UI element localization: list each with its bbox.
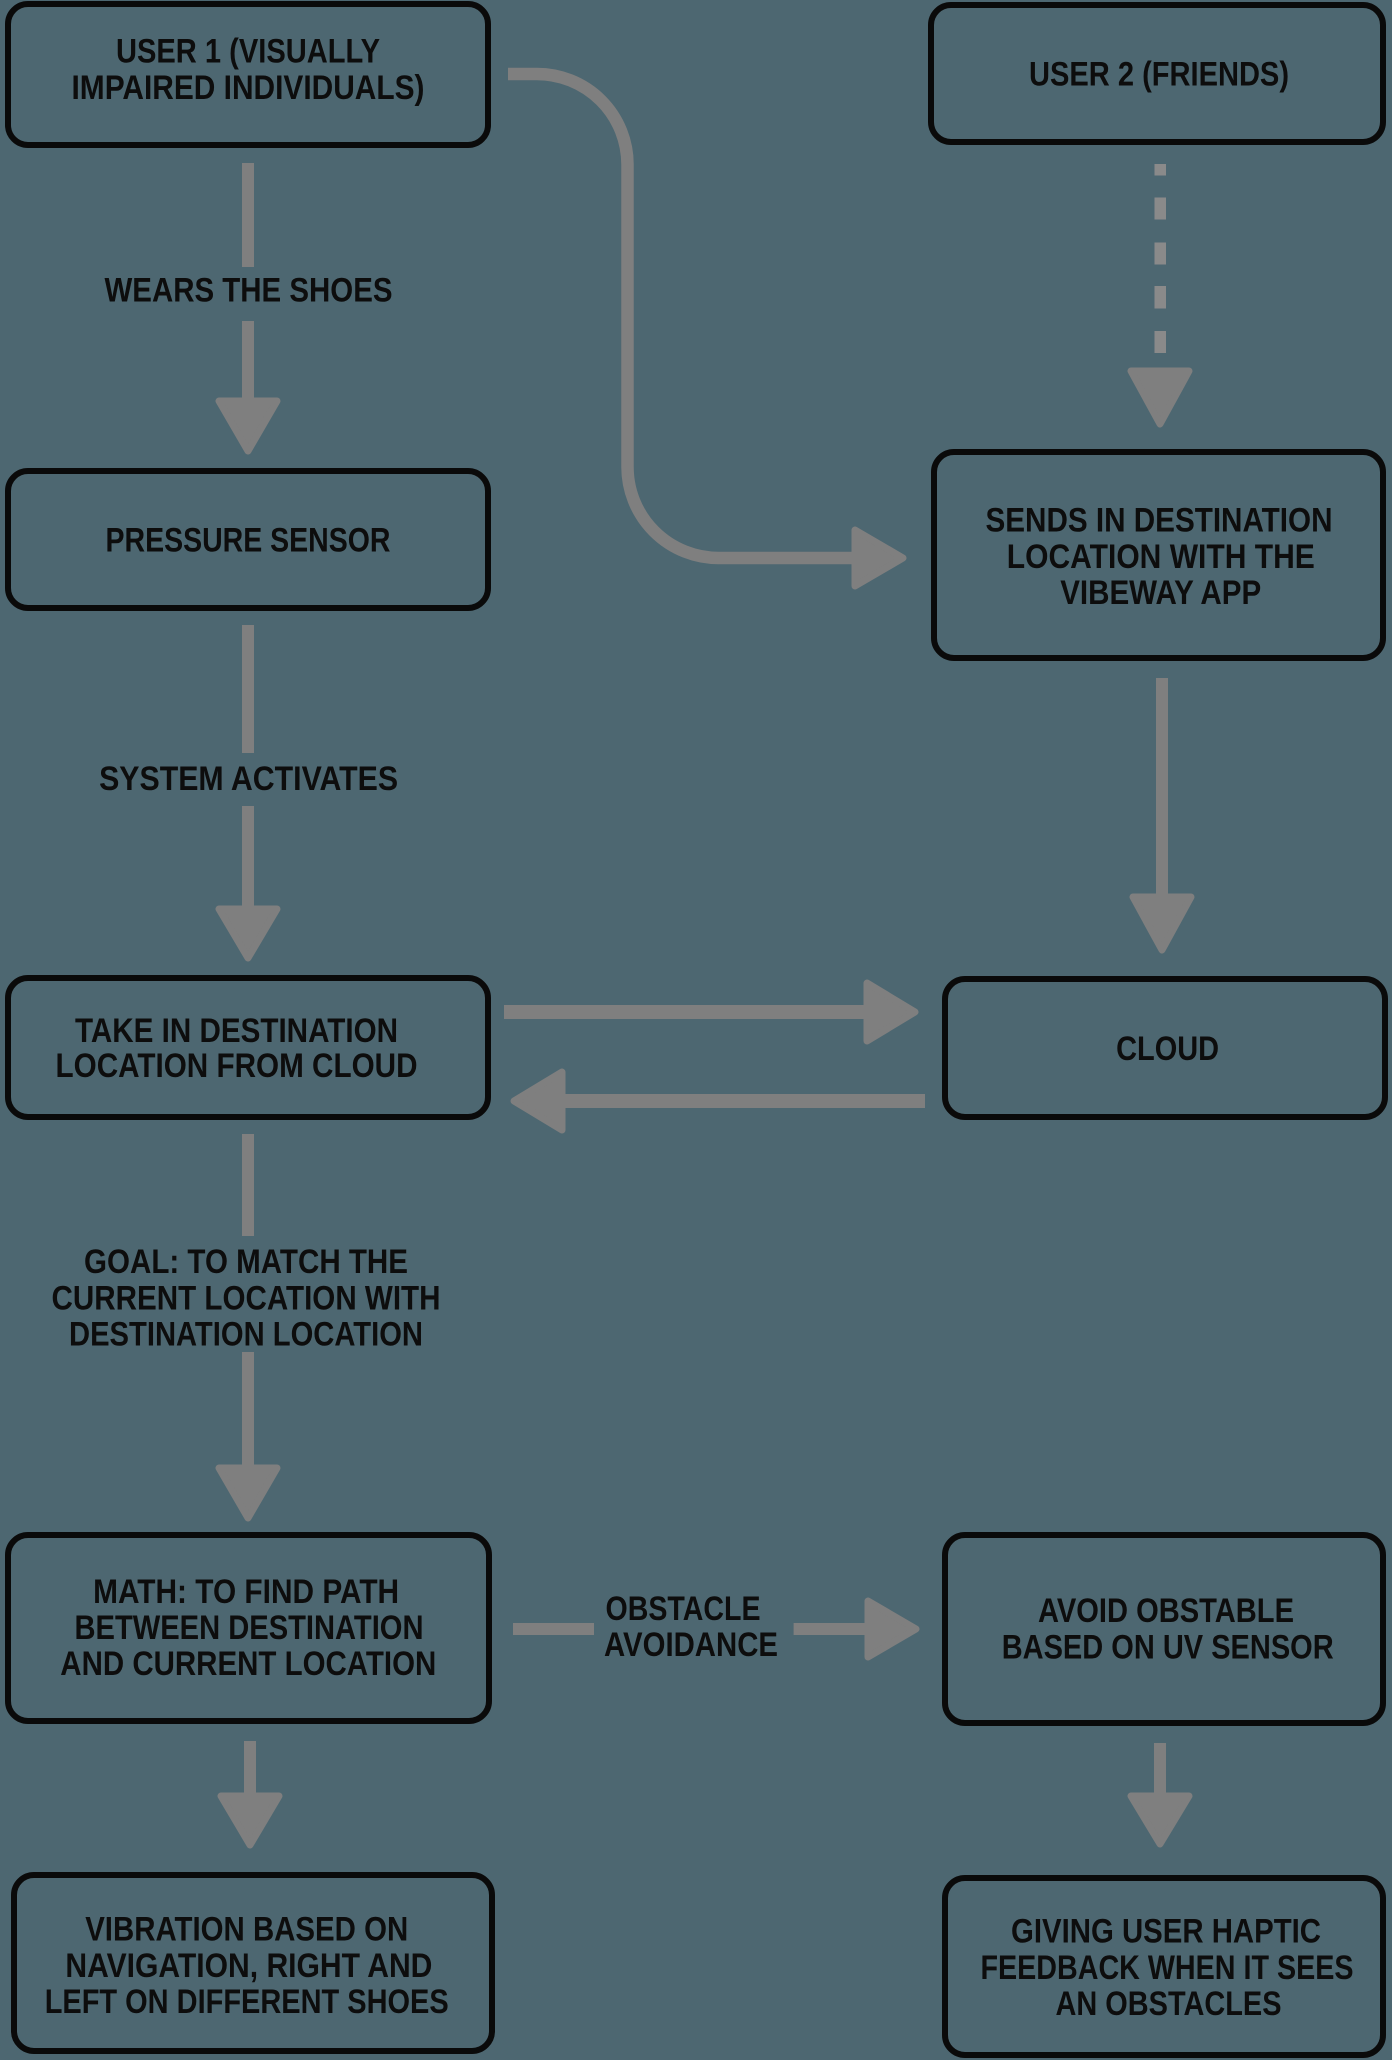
arrow TAKEIN to MATH (stem lower): [242, 1352, 254, 1465]
arrowhead down into PRESSURE: [219, 401, 277, 451]
curved connector USER1 to SENDS: [508, 74, 852, 558]
arrow AVOID to GIVING (stem): [1154, 1743, 1166, 1793]
box MATH: [8, 1535, 489, 1721]
box VIBRATION: [14, 1875, 492, 2051]
svg-text:DESTINATION LOCATION: DESTINATION LOCATION: [69, 1316, 423, 1354]
svg-text:SENDS IN DESTINATION: SENDS IN DESTINATION: [986, 502, 1333, 540]
box GIVING USER HAPTIC: [945, 1878, 1383, 2055]
arrowhead right into SENDS: [855, 530, 903, 586]
arrow MATH to AVOID (left stem): [513, 1623, 594, 1635]
arrow PRESSURE to TAKEIN (stem lower): [242, 806, 254, 906]
svg-text:CLOUD: CLOUD: [1116, 1030, 1219, 1068]
svg-text:USER 1 (VISUALLY: USER 1 (VISUALLY: [116, 33, 380, 71]
svg-text:BETWEEN DESTINATION: BETWEEN DESTINATION: [75, 1609, 424, 1647]
arrow PRESSURE to TAKEIN (stem upper): [242, 625, 254, 753]
svg-text:VIBEWAY APP: VIBEWAY APP: [1060, 574, 1261, 612]
svg-text:WEARS THE SHOES: WEARS THE SHOES: [105, 272, 393, 310]
svg-text:AND CURRENT LOCATION: AND CURRENT LOCATION: [60, 1645, 436, 1683]
dashed arrow USER2 to SENDS: [1155, 164, 1167, 353]
svg-text:FEEDBACK WHEN IT SEES: FEEDBACK WHEN IT SEES: [981, 1949, 1354, 1987]
svg-text:LOCATION WITH THE: LOCATION WITH THE: [1007, 538, 1315, 576]
svg-text:CURRENT LOCATION WITH: CURRENT LOCATION WITH: [52, 1279, 441, 1317]
arrowhead down into GIVING: [1131, 1796, 1189, 1844]
arrowhead left into TAKEIN: [514, 1072, 562, 1130]
svg-text:LEFT ON DIFFERENT SHOES: LEFT ON DIFFERENT SHOES: [45, 1983, 449, 2021]
svg-text:TAKE IN DESTINATION: TAKE IN DESTINATION: [75, 1012, 398, 1050]
box PRESSURE SENSOR: [8, 471, 488, 608]
arrow TAKEIN to MATH (stem upper): [242, 1134, 254, 1236]
arrowhead down into TAKEIN: [219, 909, 277, 958]
svg-text:VIBRATION BASED ON: VIBRATION BASED ON: [85, 1911, 408, 1949]
arrow MATH to AVOID (right stem): [794, 1623, 865, 1635]
arrow USER1 to PRESSURE (stem lower): [242, 321, 254, 398]
box SENDS IN DESTINATION: [934, 452, 1383, 658]
arrow USER1 to PRESSURE (stem upper): [242, 163, 254, 267]
svg-text:NAVIGATION, RIGHT AND: NAVIGATION, RIGHT AND: [65, 1947, 432, 1985]
arrow MATH to VIBRATION (stem): [244, 1741, 256, 1793]
arrowhead down into MATH: [219, 1468, 277, 1518]
svg-text:LOCATION FROM CLOUD: LOCATION FROM CLOUD: [56, 1047, 418, 1085]
box CLOUD: [945, 979, 1385, 1117]
arrow SENDS to CLOUD (stem): [1156, 678, 1168, 894]
svg-text:AN OBSTACLES: AN OBSTACLES: [1056, 1985, 1282, 2023]
arrowhead right into AVOID: [868, 1601, 916, 1657]
arrowhead down into VIBRATION: [221, 1796, 279, 1845]
box USER1: [8, 4, 488, 145]
svg-text:PRESSURE SENSOR: PRESSURE SENSOR: [106, 522, 391, 560]
arrow TAKEIN to CLOUD (right): [504, 1005, 865, 1019]
box TAKE IN DESTINATION LOCATION FROM CLOUD: [8, 978, 488, 1117]
svg-text:GIVING USER HAPTIC: GIVING USER HAPTIC: [1011, 1913, 1321, 1951]
svg-text:AVOIDANCE: AVOIDANCE: [604, 1626, 778, 1664]
svg-text:OBSTACLE: OBSTACLE: [606, 1590, 761, 1628]
arrow CLOUD to TAKEIN (left): [565, 1094, 925, 1108]
arrowhead down into CLOUD: [1133, 897, 1191, 950]
arrowhead down into SENDS: [1131, 371, 1189, 424]
svg-text:BASED ON UV SENSOR: BASED ON UV SENSOR: [1002, 1628, 1334, 1666]
svg-text:SYSTEM ACTIVATES: SYSTEM ACTIVATES: [99, 760, 398, 798]
svg-text:USER 2 (FRIENDS): USER 2 (FRIENDS): [1029, 55, 1289, 93]
box USER2: [931, 5, 1383, 142]
svg-text:MATH: TO FIND PATH: MATH: TO FIND PATH: [93, 1573, 399, 1611]
arrowhead right into CLOUD: [867, 983, 915, 1041]
box AVOID OBSTABLE: [945, 1535, 1383, 1723]
svg-text:AVOID OBSTABLE: AVOID OBSTABLE: [1038, 1592, 1294, 1630]
svg-text:GOAL: TO MATCH THE: GOAL: TO MATCH THE: [84, 1243, 408, 1281]
svg-text:IMPAIRED INDIVIDUALS): IMPAIRED INDIVIDUALS): [72, 69, 425, 107]
